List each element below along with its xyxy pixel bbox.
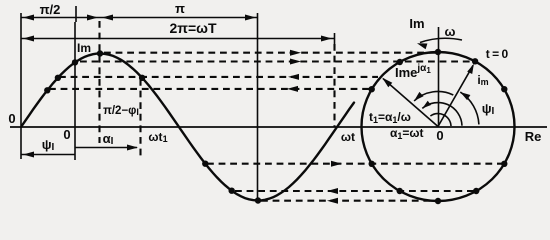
angle arc total (0 to 138) r=24 [422, 103, 462, 126]
omega rotation arrow [420, 38, 462, 42]
dashed projection rows circle<->sine [104, 52, 438, 54]
phasor circle [362, 52, 515, 201]
vertical boundary line at sine zero crossing [20, 13, 22, 159]
angle arc inner r=13 [430, 114, 451, 126]
svg-text:t = 0: t = 0 [486, 47, 509, 61]
svg-text:ω: ω [445, 24, 456, 39]
phasor Im e^(j alpha1) [383, 79, 438, 127]
svg-text:π/2−φI: π/2−φI [103, 105, 139, 117]
vertical line at pi dimension end / trough [257, 13, 259, 201]
svg-text:0: 0 [436, 128, 443, 143]
horizontal axis omega-t / Re [10, 126, 547, 128]
dots on circle [435, 49, 441, 55]
svg-text:0: 0 [63, 127, 70, 142]
svg-text:Re: Re [525, 129, 542, 144]
svg-text:Im: Im [409, 16, 424, 31]
svg-text:0: 0 [8, 111, 15, 126]
svg-text:π: π [175, 1, 185, 16]
svg-text:α1=ωt: α1=ωt [390, 126, 424, 141]
svg-text:2π=ωT: 2π=ωT [169, 20, 217, 36]
psi_i dimension line [21, 154, 75, 156]
t=0 vertical axis [75, 6, 76, 160]
phasor Im at t=0 [438, 65, 473, 126]
alpha_1 dimension line [75, 147, 137, 149]
svg-text:ωt: ωt [341, 130, 355, 144]
svg-text:π/2: π/2 [40, 2, 61, 17]
dots on sine [44, 87, 50, 93]
angle arc alpha1 (61 to 138) r=35 [414, 91, 453, 100]
dimension line pi/2 and pi [21, 17, 258, 19]
Im axis vertical [438, 27, 440, 126]
sine curve i = Im sin(wt+psi) [21, 54, 354, 201]
dashed vertical at peak [98, 21, 100, 143]
angle arc psi (0 to 61deg) r=41 [460, 92, 479, 124]
dimension line 2pi = omega T [21, 38, 334, 40]
dashed vertical at 2pi [333, 44, 335, 127]
dashed vertical at phase 138 deg [139, 79, 141, 156]
svg-text:Im: Im [77, 41, 91, 55]
